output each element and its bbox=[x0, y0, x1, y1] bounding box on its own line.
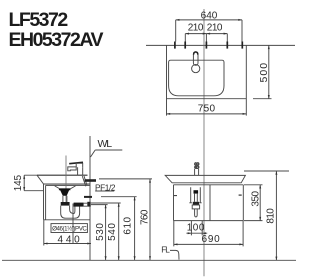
title model numbers bbox=[9, 11, 102, 51]
dim 210 right extension bbox=[226, 34, 228, 42]
dim 540 line bbox=[118, 203, 120, 260]
svg-text:210: 210 bbox=[207, 23, 223, 34]
arrows 350 bbox=[259, 185, 261, 189]
dim 690 line bbox=[174, 243, 243, 245]
hanger tick 210-right bbox=[226, 42, 228, 49]
dim 145 extensions bbox=[24, 175, 44, 191]
svg-text:610: 610 bbox=[123, 216, 134, 234]
arrows 640 bbox=[176, 19, 180, 21]
dim 640 left extension bbox=[175, 20, 177, 42]
dim 210 line (both) bbox=[185, 33, 227, 35]
faucet body (capsule) bbox=[193, 52, 198, 66]
hanger tick 210-left bbox=[184, 42, 186, 49]
arrows 810 bbox=[275, 171, 277, 175]
PF1/2 underline bbox=[95, 190, 114, 192]
arrows 610 bbox=[134, 197, 136, 201]
floor line FL bbox=[2, 259, 296, 261]
WL leader bbox=[91, 150, 96, 157]
dim 530 line bbox=[105, 205, 107, 261]
bowl underside dip bbox=[55, 186, 76, 189]
svg-text:760: 760 bbox=[139, 209, 150, 225]
dim 540 top extension bbox=[91, 202, 121, 204]
svg-text:810: 810 bbox=[266, 208, 277, 224]
cabinet bottom (side view) bbox=[44, 219, 90, 221]
trap U-bend inner bbox=[70, 206, 75, 214]
dim 145 line bbox=[23, 175, 25, 191]
faucet head bbox=[76, 163, 83, 167]
arrows 500 bbox=[268, 45, 270, 49]
supply valve bbox=[85, 179, 96, 182]
drain rail left bbox=[189, 187, 192, 203]
drain pipe lower + tip bbox=[195, 209, 198, 217]
basin rim top bbox=[37, 174, 88, 176]
drain valve block bbox=[194, 190, 199, 193]
arrows 540 bbox=[118, 203, 120, 207]
dim 210 left extension bbox=[184, 34, 186, 42]
arrows 750 bbox=[167, 113, 171, 115]
arrows 210 right bbox=[206, 33, 210, 35]
arrows 760 bbox=[149, 179, 151, 183]
dim 500 bottom extension bbox=[253, 98, 272, 100]
trap tailpipe bbox=[63, 196, 67, 202]
PVC label box bbox=[51, 224, 87, 233]
hanger tick far-left bbox=[174, 42, 176, 49]
trap outlet arm bbox=[84, 203, 88, 206]
dim 760 line bbox=[149, 179, 151, 260]
svg-text:440: 440 bbox=[57, 234, 82, 245]
dim 640 line bbox=[176, 19, 242, 21]
FL leader bbox=[170, 250, 179, 259]
svg-text:145: 145 bbox=[13, 175, 24, 192]
svg-text:640: 640 bbox=[201, 11, 218, 22]
WL underline bbox=[95, 149, 122, 151]
svg-text:210: 210 bbox=[188, 23, 204, 34]
dim 750 line bbox=[167, 113, 247, 115]
hanger tick far-right bbox=[241, 42, 243, 49]
dim 530 top extension bbox=[91, 204, 108, 206]
dim 610 top extension bbox=[101, 196, 137, 198]
dim 500 line bbox=[268, 45, 270, 98]
svg-text:690: 690 bbox=[201, 234, 220, 245]
dim 350 extensions bbox=[244, 185, 263, 221]
svg-text:WL: WL bbox=[98, 138, 113, 150]
drain rail right bbox=[199, 187, 202, 203]
basin bowl outline bbox=[169, 60, 224, 96]
faucet spout circle bbox=[192, 65, 200, 73]
dim 350 line bbox=[259, 185, 261, 221]
basin underside lines bbox=[44, 184, 90, 185]
dim 440 left extension bbox=[43, 220, 45, 246]
drain coupling bbox=[192, 205, 199, 209]
door hinge mark bbox=[174, 195, 177, 197]
basin front bevel bbox=[37, 175, 44, 184]
cabinet top edge bbox=[174, 184, 244, 186]
svg-text:500: 500 bbox=[258, 62, 270, 83]
arrows 210 left bbox=[185, 33, 189, 35]
wall line bbox=[146, 44, 295, 46]
wall supply fitting PF1/2 bbox=[84, 196, 92, 198]
centerline (vertical axis through plan and front views) bbox=[203, 9, 205, 276]
supply hose bbox=[82, 176, 87, 186]
drain flange funnel bbox=[59, 188, 71, 190]
trap nut 2 bbox=[74, 203, 84, 207]
hanger tick center bbox=[205, 42, 207, 49]
trap U-bend outer bbox=[61, 206, 80, 219]
faucet centerline bbox=[65, 156, 67, 206]
dim 810 top extension bbox=[244, 170, 289, 172]
counter right edge + 750 extension bbox=[245, 45, 247, 115]
dim 760 top extension bbox=[99, 178, 152, 180]
svg-text:Ø46(1½”)PVC: Ø46(1½”)PVC bbox=[52, 225, 87, 232]
arrows 145 bbox=[23, 175, 25, 179]
cabinet front double line bbox=[44, 184, 46, 220]
drain nut bbox=[193, 202, 199, 205]
PVC label leader bbox=[72, 204, 74, 244]
arrows 690 bbox=[174, 243, 178, 245]
svg-text:100: 100 bbox=[187, 223, 205, 234]
svg-text:540: 540 bbox=[107, 223, 118, 241]
svg-text:350: 350 bbox=[250, 190, 261, 206]
arrows 100 (outside) bbox=[188, 232, 192, 234]
dim 810 line bbox=[275, 171, 277, 260]
svg-text:FL: FL bbox=[161, 245, 170, 255]
dim 100 line bbox=[186, 232, 207, 234]
faucet lever bbox=[69, 162, 83, 163]
wall line WL bbox=[89, 136, 91, 260]
cabinet partition bbox=[209, 185, 211, 221]
counter front edge bbox=[167, 98, 247, 100]
door handle bbox=[239, 194, 242, 196]
dim 640 right extension bbox=[241, 20, 243, 42]
dim 100 extensions bbox=[191, 221, 202, 236]
dim 690 extensions bbox=[174, 221, 243, 247]
basin rim trapezoid bbox=[165, 175, 245, 182]
svg-text:68: 68 bbox=[195, 162, 201, 169]
cabinet left side bbox=[173, 185, 175, 221]
arrows 440 bbox=[44, 243, 48, 245]
drain pipe upper bbox=[195, 194, 198, 202]
svg-text:530: 530 bbox=[95, 223, 106, 241]
faucet column bbox=[78, 167, 83, 175]
svg-text:750: 750 bbox=[198, 103, 216, 114]
dim 440 line bbox=[44, 243, 91, 245]
dim 210 middle extension bbox=[205, 34, 207, 42]
svg-text:PF1/2: PF1/2 bbox=[95, 183, 116, 193]
faucet body dark cap bbox=[194, 52, 198, 55]
wall drain fitting bbox=[87, 202, 90, 207]
faucet spout bbox=[68, 167, 76, 171]
cabinet bottom bbox=[174, 220, 244, 222]
trap nut 1 bbox=[61, 202, 70, 206]
cabinet right side bbox=[242, 185, 244, 221]
arrows 530 bbox=[105, 205, 107, 209]
counter left edge + 750 extension bbox=[166, 45, 168, 115]
faucet stem (front view) bbox=[195, 169, 199, 176]
dim 610 line bbox=[134, 197, 136, 261]
